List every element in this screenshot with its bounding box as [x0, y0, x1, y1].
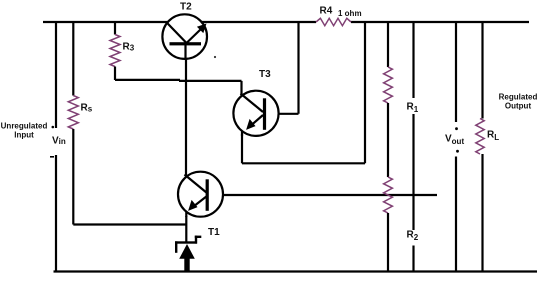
- wire R1 line upper: [412, 22, 414, 98]
- wire R2 line lower: [412, 246, 414, 272]
- wire R3 horizontal right jog: [179, 80, 242, 82]
- wire T1 base to divider tap: [223, 194, 437, 196]
- node Vout minus dot: [456, 150, 459, 153]
- svg-text:Output: Output: [505, 102, 532, 111]
- wire Rs lower lead down to horizontal: [72, 129, 74, 225]
- svg-text:Vin: Vin: [52, 136, 66, 147]
- wire vertical up from emitter wire to output rail: [364, 22, 366, 163]
- wire horizontal from Rs to T1 emitter node: [73, 223, 186, 225]
- wire T3 base horizontal: [279, 113, 299, 115]
- wire R1 line middle: [412, 114, 414, 230]
- svg-text:R1: R1: [407, 102, 419, 115]
- wire top rail middle segment (T2 to R4): [202, 21, 316, 23]
- resistor RL: [476, 119, 484, 155]
- svg-text:R4: R4: [320, 6, 333, 17]
- resistor R1 zigzag: [384, 67, 393, 103]
- wire top rail right segment (R4 to right end): [351, 21, 529, 23]
- resistor R2 zigzag: [384, 177, 393, 213]
- resistor R4: [316, 18, 351, 25]
- svg-text:Regulated: Regulated: [499, 93, 538, 102]
- svg-text:1 ohm: 1 ohm: [338, 9, 362, 18]
- wire left input vertical lower: [55, 155, 57, 272]
- wire T3 collector drop: [240, 81, 242, 96]
- node minus mark at Vin: [50, 156, 54, 158]
- transistor T1: [178, 172, 223, 217]
- wire T3 base vertical to R4 left node: [297, 22, 299, 114]
- svg-text:T2: T2: [180, 2, 192, 13]
- wire Rs branch upper lead: [72, 22, 74, 96]
- node plus mark at Vin: [52, 126, 55, 129]
- svg-text:T3: T3: [259, 69, 271, 80]
- svg-text:Unregulated: Unregulated: [1, 122, 48, 131]
- wire divider branch upper lead: [387, 22, 389, 67]
- wire left input vertical upper: [55, 21, 57, 128]
- node Vout plus dot: [455, 127, 458, 130]
- wire bottom rail: [54, 270, 538, 272]
- svg-text:T1: T1: [208, 227, 220, 238]
- wire top rail left segment: [43, 21, 168, 23]
- wire divider lower lead: [387, 213, 389, 272]
- node speck near T2: [214, 56, 216, 58]
- wire T3 emitter horizontal to output rail branch: [242, 162, 365, 164]
- wire T1 emitter down to zener: [185, 216, 187, 243]
- wire divider middle: [387, 103, 389, 177]
- svg-text:Vout: Vout: [445, 134, 464, 147]
- wire T2 base vertical down to T1 collector: [185, 58, 187, 178]
- svg-text:Input: Input: [14, 131, 34, 140]
- transistor T2: [162, 14, 207, 59]
- svg-text:R3: R3: [123, 42, 135, 53]
- wire RL lower lead: [481, 154, 483, 272]
- zener diode: [175, 236, 201, 272]
- resistor R3: [110, 35, 120, 67]
- wire Vout line lower: [455, 157, 457, 272]
- wire R3 branch upper lead: [114, 22, 116, 35]
- svg-text:Rs: Rs: [81, 103, 93, 114]
- wire T3 emitter down: [241, 134, 243, 163]
- wire R3 lower lead: [114, 67, 116, 81]
- wire Vout line upper: [455, 22, 457, 122]
- svg-text:R2: R2: [407, 230, 419, 243]
- wire RL branch upper lead: [481, 22, 483, 119]
- wire R3 bottom horizontal to T3 collector: [115, 79, 180, 81]
- resistor Rs: [68, 96, 78, 130]
- transistor T3: [233, 91, 278, 136]
- svg-text:RL: RL: [487, 130, 499, 143]
